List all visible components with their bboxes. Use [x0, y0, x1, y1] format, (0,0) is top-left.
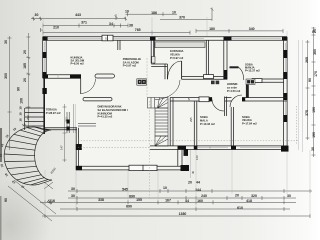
svg-text:90: 90 — [4, 198, 8, 202]
svg-text:240: 240 — [201, 194, 207, 198]
svg-text:P=10.32 m2: P=10.32 m2 — [200, 122, 215, 126]
svg-text:360: 360 — [313, 49, 317, 55]
svg-text:147: 147 — [60, 145, 64, 150]
svg-text:KUPAONA: KUPAONA — [170, 49, 183, 53]
svg-text:418: 418 — [246, 199, 252, 203]
door predsoblje arc — [168, 61, 182, 79]
spiral tread numbers — [0, 106, 26, 189]
dim ext line — [190, 150, 192, 178]
top exterior wall — [43, 36, 287, 40]
svg-text:170: 170 — [314, 71, 318, 77]
terrace step edge — [78, 123, 96, 126]
svg-text:18: 18 — [0, 153, 3, 157]
svg-text:160: 160 — [197, 199, 203, 203]
svg-text:292: 292 — [26, 115, 30, 120]
svg-text:30: 30 — [287, 194, 291, 198]
svg-text:SOBA: SOBA — [200, 115, 208, 119]
hodnik north wall — [182, 75, 227, 80]
svg-text:190: 190 — [312, 107, 316, 113]
door predsoblje leaf — [181, 61, 183, 79]
svg-text:18: 18 — [19, 118, 23, 122]
bath tub kupaona — [155, 42, 205, 48]
bottom dim row P — [68, 189, 312, 193]
svg-text:34: 34 — [109, 22, 113, 26]
right dim labels — [305, 29, 318, 151]
door leaf wall — [225, 97, 227, 117]
terrace edge line — [73, 104, 75, 133]
svg-text:190: 190 — [312, 132, 316, 138]
left dim labels — [4, 40, 27, 104]
stair ext dashed line — [149, 101, 151, 199]
svg-text:106: 106 — [20, 98, 24, 104]
svg-text:10: 10 — [163, 186, 167, 190]
top wall glazing lines — [48, 38, 281, 40]
svg-text:20: 20 — [23, 50, 27, 54]
lower-left block east wall — [178, 149, 189, 171]
svg-text:20: 20 — [23, 78, 27, 82]
svg-text:30: 30 — [35, 13, 39, 17]
svg-text:167: 167 — [165, 198, 171, 202]
svg-text:P=12.37 m2: P=12.37 m2 — [245, 69, 260, 73]
top dim row E — [196, 29, 283, 33]
interior wall predsoblje/kupaona — [151, 40, 154, 63]
svg-text:90: 90 — [17, 87, 21, 91]
svg-text:P=5.97 m2: P=5.97 m2 — [123, 64, 137, 68]
kitchen south wall — [43, 74, 81, 78]
svg-text:15: 15 — [187, 97, 191, 101]
door soba mala arc — [212, 100, 224, 112]
svg-text:HODNIK: HODNIK — [227, 82, 238, 86]
top dim row C — [43, 24, 128, 28]
svg-text:10: 10 — [172, 11, 176, 15]
svg-text:DNEVNI BORAVAK: DNEVNI BORAVAK — [98, 104, 122, 108]
bottom dim row Q — [68, 196, 296, 200]
left dim chain outer — [8, 36, 12, 150]
partition between lower rooms — [231, 107, 233, 146]
svg-text:340: 340 — [249, 27, 255, 31]
top dim labels — [35, 9, 316, 34]
svg-text:P=4.50 m2: P=4.50 m2 — [227, 89, 241, 93]
svg-text:20: 20 — [235, 193, 239, 197]
svg-text:443: 443 — [75, 13, 81, 17]
bottom dim row S — [60, 207, 290, 211]
wall predsoblje north of stair — [151, 64, 167, 79]
right faint chain lines — [299, 40, 303, 152]
svg-text:320: 320 — [251, 194, 257, 198]
svg-text:185: 185 — [23, 63, 27, 69]
interior wall kupaona east — [206, 40, 208, 76]
svg-text:180: 180 — [209, 27, 215, 31]
svg-text:300: 300 — [4, 73, 8, 79]
svg-text:20: 20 — [313, 29, 317, 33]
left edge scan marks — [0, 128, 2, 162]
bottom dim labels — [4, 180, 291, 216]
inner arc — [35, 130, 52, 180]
winder treads — [42, 128, 51, 130]
right dim chain outer — [312, 27, 316, 157]
left exterior wall upper — [42, 37, 46, 78]
svg-text:155: 155 — [136, 198, 142, 202]
kitchen counter bar — [83, 98, 112, 101]
svg-text:P=6.97 m2: P=6.97 m2 — [170, 56, 184, 60]
svg-text:30: 30 — [311, 147, 315, 151]
appliance double square — [137, 79, 147, 85]
top dim row B — [31, 17, 127, 21]
sink kupaona — [152, 57, 155, 64]
svg-text:370: 370 — [179, 15, 185, 19]
svg-text:P=17.84 m2: P=17.84 m2 — [242, 121, 257, 125]
dashed roof overhang lines — [78, 106, 298, 148]
svg-text:30: 30 — [4, 40, 8, 44]
svg-text:20: 20 — [188, 180, 192, 184]
wc fixtures — [211, 81, 219, 85]
top dim row 370 — [160, 8, 214, 21]
svg-text:292: 292 — [65, 117, 69, 122]
left dim chain inner — [26, 33, 30, 128]
building interior fill — [43, 37, 287, 171]
top dim row D — [43, 31, 190, 35]
top dim micro row — [115, 12, 178, 20]
door kitchen arc — [81, 74, 115, 94]
svg-text:690: 690 — [126, 204, 132, 208]
bottom dim row T — [42, 214, 310, 218]
bottom-left diagonal dim lines — [8, 180, 56, 221]
svg-text:MALA: MALA — [200, 118, 208, 122]
terrace column — [66, 112, 69, 133]
top-right soba south wall — [252, 79, 284, 83]
svg-text:371: 371 — [81, 21, 87, 25]
svg-text:P=41.32 m2: P=41.32 m2 — [98, 114, 113, 118]
svg-text:265: 265 — [305, 57, 309, 63]
door living-hodnik arc — [155, 80, 180, 100]
svg-text:40: 40 — [191, 170, 195, 174]
svg-text:210: 210 — [53, 25, 59, 29]
right exterior wall — [283, 37, 287, 150]
bottom dim row R — [40, 200, 296, 204]
svg-text:1380: 1380 — [179, 212, 187, 216]
door soba velika arc — [230, 95, 242, 107]
svg-text:690: 690 — [129, 194, 135, 198]
south wall of right rooms — [150, 146, 289, 156]
svg-text:610: 610 — [237, 206, 243, 210]
lower-left block west wall — [76, 128, 82, 170]
svg-text:375: 375 — [305, 110, 309, 116]
door jamb wall in hodnik — [246, 85, 249, 98]
svg-text:44: 44 — [185, 199, 189, 203]
top dim row 210 line — [41, 28, 44, 32]
svg-text:30: 30 — [71, 194, 75, 198]
svg-text:90: 90 — [308, 78, 312, 82]
partition soba mala east — [194, 101, 197, 146]
terrace step wall — [44, 128, 77, 130]
interior wall wc east — [223, 40, 227, 79]
bottom-left scan shading — [0, 180, 50, 240]
left wall lower (terrace side) — [42, 78, 46, 134]
west wall of soba mala — [170, 98, 173, 146]
svg-text:18: 18 — [19, 112, 23, 116]
svg-text:120: 120 — [195, 155, 199, 160]
stairwell edge line — [146, 58, 148, 97]
svg-text:295: 295 — [189, 117, 193, 122]
svg-text:30: 30 — [71, 187, 75, 191]
svg-text:545: 545 — [122, 188, 128, 192]
straight treads — [25, 107, 44, 109]
svg-text:186: 186 — [151, 11, 157, 15]
window in top wall — [102, 35, 113, 41]
svg-text:VELIKA: VELIKA — [170, 52, 180, 56]
svg-text:TERASA: TERASA — [46, 108, 57, 112]
svg-text:38: 38 — [129, 24, 133, 28]
svg-text:P=8.50 m2: P=8.50 m2 — [71, 62, 85, 66]
interior wall stub kitchen — [118, 40, 120, 50]
svg-text:44: 44 — [196, 180, 200, 184]
hodnik south wall — [170, 97, 287, 102]
outer arc — [4, 127, 42, 185]
svg-text:za sobe: za sobe — [227, 85, 237, 89]
svg-text:18: 18 — [19, 106, 23, 110]
svg-text:338: 338 — [98, 198, 104, 202]
right dim chain inner — [306, 40, 310, 140]
door top-right soba arc — [230, 66, 244, 80]
appliance boxes hodnik — [246, 79, 255, 85]
lower-left block south wall — [76, 165, 186, 170]
terrace dim line — [63, 104, 67, 162]
svg-text:10: 10 — [125, 9, 129, 13]
svg-text:P=28.97 m2: P=28.97 m2 — [46, 111, 61, 115]
svg-text:765: 765 — [135, 28, 141, 32]
